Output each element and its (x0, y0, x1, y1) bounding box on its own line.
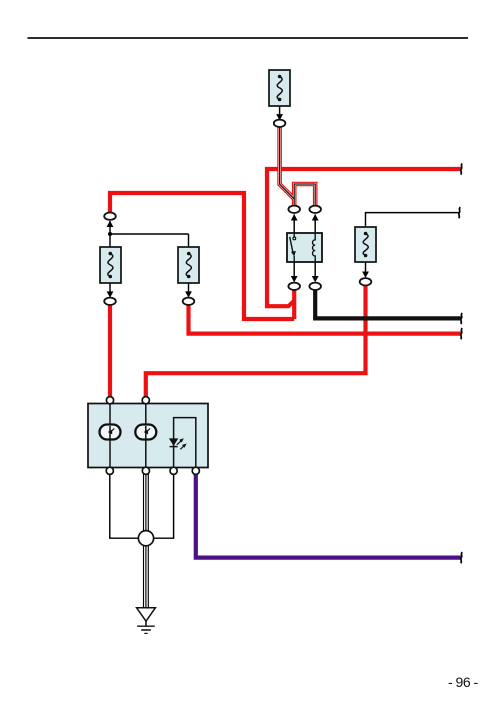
wire: fuse FR input from right edge (366, 213, 460, 227)
wire: bulb L1 through-line (109, 426, 111, 439)
fuse FL1 (left) (100, 247, 121, 283)
connector E9 (360, 278, 372, 285)
wire: bulb L1 column (109, 399, 111, 470)
wire: meter terminal 7 to splice junction (153, 474, 174, 539)
connector E7 (288, 283, 300, 290)
wire: bulb L2 through-line (145, 426, 147, 439)
wire break mark at red FL2 wire right end (461, 328, 463, 339)
connector E1 (274, 120, 286, 127)
page top rule (28, 37, 469, 39)
wire: red fuse FL2 output to right edge (189, 305, 462, 334)
wire: red fuse FL1 output down to meter terminal 1 (108, 305, 112, 399)
wire break mark at red bus right end (461, 164, 463, 175)
connector E3 (104, 298, 116, 305)
ground symbol (137, 608, 156, 634)
wire: fuse FR output lead with arrowhead to connector E9 (362, 262, 369, 278)
wire: node B down to fuse FL1 (109, 234, 111, 248)
wire break mark at fuse FR input right end (459, 207, 461, 218)
bulb L1 (100, 425, 121, 440)
combination meter block U1 (88, 404, 208, 468)
connector E6 (309, 206, 321, 213)
meter terminal 5 (106, 467, 113, 474)
wire break mark at purple wire right end (461, 552, 463, 563)
wire: red link relay COM stem down (292, 290, 296, 320)
meter terminal 8 (192, 467, 199, 474)
connector E4 (183, 298, 195, 305)
fuse FR (right) (355, 227, 376, 262)
wire: relay pin 1 lead up with arrowhead to connector E5 (291, 214, 298, 233)
page number (448, 674, 478, 690)
wire: striped red/black feed from fuse F1 to relay connectors (280, 127, 316, 206)
wire: meter terminal 5 to splice junction (110, 474, 139, 539)
wire: bulb L2 column (145, 399, 147, 470)
fuse F1 (top) (269, 70, 290, 106)
relay K1 (287, 233, 322, 262)
wire: LED branch loop (174, 418, 196, 468)
wire: relay pin 3 lead down with arrowhead to connector E7 (291, 262, 298, 283)
wire break mark at black wire right end (461, 313, 463, 324)
wire: branch down to fuse FL2 (188, 234, 190, 248)
wire: connector E2 lead down with arrowhead up (107, 221, 114, 234)
connector E2 (104, 213, 116, 220)
wire: fuse FL1 output lead with arrowhead to connector E3 (107, 283, 114, 298)
splice junction node C (138, 531, 153, 546)
wire: relay pin 4 lead down with arrowhead to connector E8 (312, 262, 319, 283)
wire: red feed bus from node A to right edge (267, 169, 462, 308)
wire: red inner link relay COM to bus corner (265, 301, 294, 307)
junction dot node B (108, 232, 112, 236)
fuse FL2 (left inner) (178, 247, 199, 283)
wire: black relay coil return to right edge (315, 290, 461, 319)
wire: red outer link relay COM to left branch and connector E2 (110, 193, 294, 319)
meter terminal 6 (142, 467, 149, 474)
wire: fuse F1 lead to connector E1 with arrowhead (276, 106, 283, 121)
meter terminal 7 (170, 467, 177, 474)
wire: red fuse FR output to meter terminal 2 (146, 285, 366, 398)
connector E5 (288, 206, 300, 213)
connector E8 (309, 283, 321, 290)
wire: purple meter output to right edge (196, 473, 462, 558)
wire: branch horizontal to fuse FL2 (110, 233, 189, 235)
wire: triple ground conductor from meter terminal 6 to ground (144, 474, 149, 609)
meter terminal 1 (106, 397, 113, 404)
bulb L2 (135, 425, 156, 440)
meter terminal 2 (142, 397, 149, 404)
wire: fuse FL2 output lead with arrowhead to connector E4 (185, 283, 192, 298)
LED D1 (169, 438, 187, 449)
wire: relay pin 2 lead up with arrowhead to connector E6 (312, 214, 319, 233)
